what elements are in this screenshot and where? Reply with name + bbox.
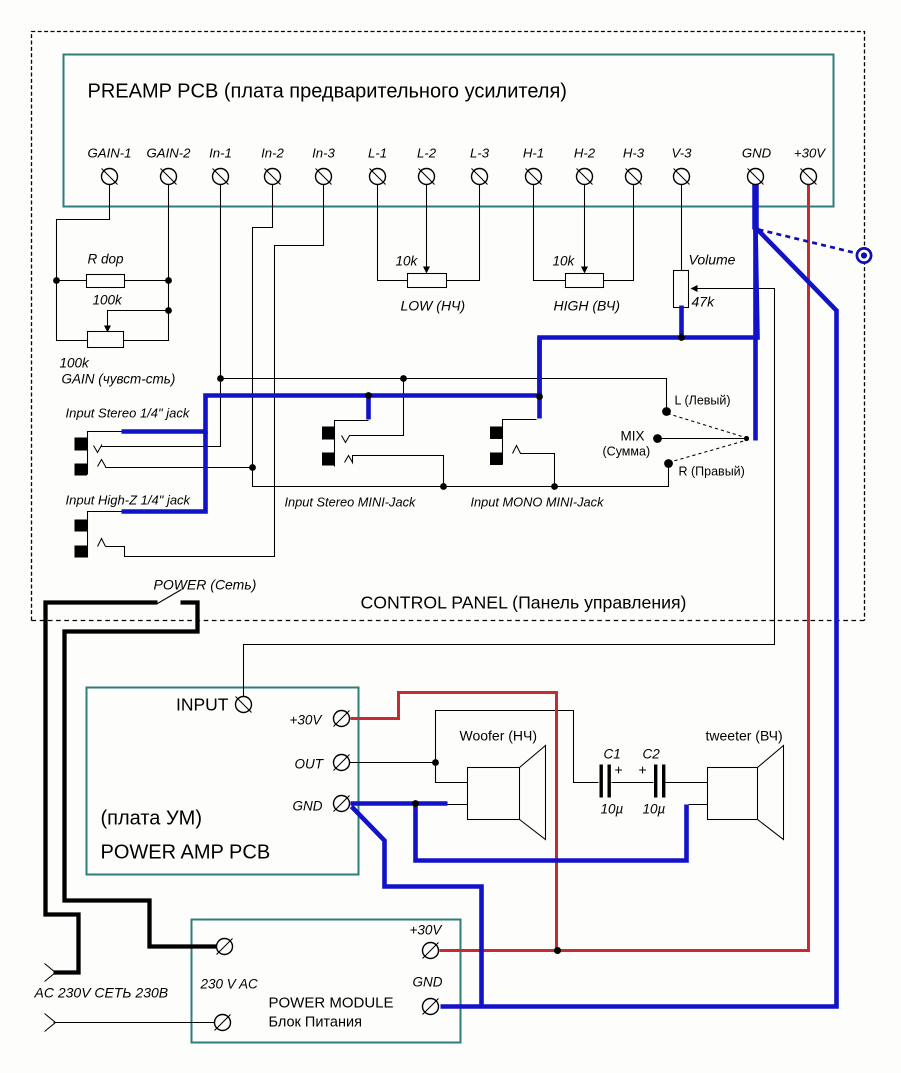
node MIX — [653, 434, 662, 443]
blue vertical to selector — [753, 228, 758, 441]
node OUT — [432, 759, 439, 766]
wire In-3 down to High-Z tip — [106, 185, 324, 557]
terminal In-3 — [316, 169, 332, 185]
wire Volume wiper to INPUT — [244, 289, 775, 697]
terminal L-1 — [370, 169, 386, 185]
svg-text:L-1: L-1 — [368, 146, 387, 161]
wire L-2 wiper — [426, 185, 428, 268]
node In-1 ring — [217, 375, 224, 382]
svg-text:H-3: H-3 — [623, 146, 645, 161]
svg-text:LOW (НЧ): LOW (НЧ) — [401, 298, 466, 314]
jack Input High-Z body — [88, 512, 122, 558]
node R — [664, 459, 673, 468]
potentiometer HIGH 10k — [566, 274, 604, 288]
terminal amp GND — [334, 796, 350, 812]
terminal H-2 — [577, 169, 593, 185]
connector external circle — [857, 248, 871, 262]
arrowhead LOW wiper — [423, 267, 430, 274]
node mini stereo tip on bottom line — [440, 483, 447, 490]
node selector common — [744, 436, 749, 441]
wire OUT net — [350, 762, 436, 764]
jack Stereo MINI body — [335, 421, 369, 467]
capacitor C2 plates — [654, 765, 657, 798]
svg-text:tweeter (ВЧ): tweeter (ВЧ) — [706, 728, 783, 744]
svg-text:L (Левый): L (Левый) — [675, 394, 731, 408]
mains plug chevron 1 — [45, 964, 56, 982]
jack stereo contact squares — [75, 438, 88, 451]
wire In-2 down to stereo jack tip — [253, 185, 669, 487]
node red junction — [554, 947, 561, 954]
wire selector MIX common — [662, 438, 746, 440]
mono squares — [490, 427, 503, 440]
svg-text:L-2: L-2 — [417, 146, 437, 161]
jack Input Stereo 1/4 body — [88, 432, 122, 475]
dashed selector to R — [669, 441, 746, 463]
svg-text:+: + — [615, 762, 623, 778]
blue amp GND wire — [351, 801, 448, 806]
svg-text:R dop: R dop — [88, 252, 125, 267]
blue GND terminal stub — [752, 184, 759, 230]
dashed selector to L — [668, 414, 746, 438]
jack stereo tip contact — [98, 460, 106, 468]
blue amp GND to tweeter return — [416, 804, 687, 861]
wire OUT to woofer — [436, 763, 468, 783]
potentiometer GAIN 100k — [88, 332, 124, 348]
dashed blue wire to external — [759, 230, 854, 253]
node volume stub — [678, 334, 685, 341]
svg-text:GND: GND — [293, 799, 323, 814]
svg-text:GAIN-1: GAIN-1 — [88, 146, 132, 161]
red wire +30V amp — [351, 693, 557, 951]
terminal V-3 — [674, 169, 690, 185]
wire ring bus to L node — [221, 379, 667, 412]
svg-text:PREAMP PCB (плата предваритель: PREAMP PCB (плата предварительного усили… — [88, 81, 567, 103]
jack high-z squares — [75, 520, 88, 532]
terminal GND — [748, 169, 764, 185]
svg-text:Volume: Volume — [689, 252, 736, 268]
svg-text:GND: GND — [742, 146, 772, 161]
terminal GAIN-1 — [102, 169, 118, 185]
svg-text:In-2: In-2 — [261, 146, 284, 161]
node amp GND — [412, 800, 419, 807]
wire In-1 down to stereo jack ring — [102, 185, 221, 447]
svg-text:47k: 47k — [692, 294, 716, 310]
svg-text:POWER AMP PCB: POWER AMP PCB — [101, 842, 271, 864]
wire stereo jack tip — [106, 467, 253, 469]
svg-text:MIX: MIX — [621, 429, 645, 444]
svg-text:INPUT: INPUT — [176, 695, 229, 715]
blue High-Z stub — [122, 432, 206, 512]
svg-text:OUT: OUT — [295, 757, 325, 772]
wire C2 to tweeter — [666, 782, 708, 784]
node In-2 tip — [249, 464, 256, 471]
svg-text:Input High-Z 1/4" jack: Input High-Z 1/4" jack — [66, 493, 192, 508]
potentiometer Volume 47k — [674, 271, 689, 308]
arrowhead HIGH wiper — [581, 267, 588, 274]
wire C1-C2 — [612, 782, 654, 784]
terminal module AC2 — [215, 1015, 231, 1031]
woofer speaker — [468, 768, 520, 820]
arrowhead GAIN pot wiper — [104, 326, 111, 333]
potentiometer LOW 10k — [408, 274, 447, 288]
svg-text:L-3: L-3 — [470, 146, 490, 161]
wire OUT to crossover top — [436, 711, 599, 783]
mini stereo squares — [322, 427, 335, 440]
svg-text:230 V AC: 230 V AC — [200, 977, 259, 992]
wire GAIN-2 down — [124, 185, 169, 341]
mini stereo tip wire — [345, 456, 444, 487]
wire wiper GAIN pot — [108, 311, 169, 327]
svg-text:(плата УМ): (плата УМ) — [101, 808, 202, 830]
svg-text:10µ: 10µ — [601, 802, 624, 817]
svg-text:H-1: H-1 — [523, 146, 544, 161]
wire GAIN-1 down — [57, 185, 110, 341]
terminal H-1 — [526, 169, 542, 185]
power switch blade — [158, 590, 182, 604]
svg-text:100k: 100k — [93, 293, 124, 308]
svg-text:+30V: +30V — [794, 146, 826, 161]
node L — [662, 407, 671, 416]
mono tip wire — [513, 446, 555, 487]
wire L-1 down — [378, 185, 408, 281]
blue ground bus preamp — [122, 184, 758, 432]
terminal INPUT — [236, 697, 252, 713]
svg-text:POWER (Сеть): POWER (Сеть) — [154, 577, 257, 593]
red wire +30V rail bottom — [440, 185, 809, 951]
control panel bottom dashed edge — [32, 620, 865, 622]
terminal module AC1 — [217, 939, 233, 955]
tweeter speaker — [708, 768, 758, 820]
terminal amp +30V — [334, 711, 350, 727]
wire H-1 down — [534, 185, 566, 281]
svg-text:In-3: In-3 — [312, 146, 335, 161]
node R dop left — [53, 277, 60, 284]
wire H-2 wiper — [584, 185, 586, 268]
resistor R dop leads — [57, 280, 87, 282]
svg-text:Input MONO MINI-Jack: Input MONO MINI-Jack — [471, 495, 605, 510]
resistor R dop — [87, 275, 125, 288]
terminal In-1 — [213, 169, 229, 185]
mains wire plug2 — [54, 1022, 215, 1024]
terminal amp OUT — [334, 755, 350, 771]
svg-text:HIGH (ВЧ): HIGH (ВЧ) — [554, 298, 621, 314]
blue volume stub — [679, 306, 684, 338]
svg-text:GND: GND — [413, 975, 443, 990]
capacitor C1 plates — [600, 765, 603, 798]
svg-text:H-2: H-2 — [574, 146, 596, 161]
svg-text:+: + — [639, 762, 647, 778]
preamp PCB box — [64, 55, 834, 207]
svg-text:AC 230V СЕТЬ 230В: AC 230V СЕТЬ 230В — [34, 985, 169, 1001]
svg-text:Woofer (НЧ): Woofer (НЧ) — [460, 728, 538, 744]
mini stereo ring V wire — [342, 379, 404, 443]
svg-text:R (Правый): R (Правый) — [679, 465, 745, 479]
power switch wire A from plug — [46, 603, 158, 973]
woofer wire stub black — [445, 804, 468, 806]
terminal module +30V — [423, 943, 439, 959]
power switch wire B to module — [65, 603, 217, 947]
node mono tip on bottom line — [551, 483, 558, 490]
jack stereo ring contact V — [94, 446, 102, 453]
jack MONO MINI body — [503, 420, 537, 465]
node R dop right — [165, 277, 172, 284]
svg-text:Блок Питания: Блок Питания — [269, 1015, 362, 1031]
svg-text:V-3: V-3 — [671, 146, 692, 161]
node mini-jack ring — [400, 375, 407, 382]
svg-text:(Сумма): (Сумма) — [603, 445, 651, 459]
power module box — [192, 920, 461, 1043]
terminal module GND — [423, 999, 439, 1015]
svg-text:CONTROL PANEL (Панель управле: CONTROL PANEL (Панель управления) — [361, 593, 687, 613]
svg-text:C1: C1 — [604, 747, 621, 762]
terminal H-3 — [626, 169, 642, 185]
wire L-3 down — [447, 185, 480, 281]
svg-text:In-1: In-1 — [209, 146, 232, 161]
svg-text:10k: 10k — [553, 254, 576, 269]
terminal In-2 — [265, 169, 281, 185]
tweeter wire stub black — [689, 804, 708, 806]
arrowhead Volume wiper — [691, 285, 698, 292]
node mini stub — [365, 392, 372, 399]
terminal GAIN-2 — [161, 169, 177, 185]
terminal L-3 — [472, 169, 488, 185]
node mono stub — [536, 393, 543, 400]
blue mono stub — [537, 338, 542, 419]
svg-text:100k: 100k — [60, 356, 91, 371]
jack high-z tip contact — [98, 539, 106, 547]
blue mini stereo stub — [366, 396, 371, 420]
terminal +30V — [801, 169, 817, 185]
svg-text:+30V: +30V — [290, 713, 324, 728]
svg-text:GAIN-2: GAIN-2 — [147, 146, 192, 161]
power amp PCB box — [87, 688, 359, 875]
node GAIN wiper — [165, 307, 172, 314]
terminal L-2 — [419, 169, 435, 185]
svg-text:10k: 10k — [396, 254, 419, 269]
svg-text:Input Stereo 1/4" jack: Input Stereo 1/4" jack — [66, 406, 191, 421]
svg-text:+30V: +30V — [410, 923, 444, 938]
wire H-3 down — [604, 185, 634, 281]
svg-text:C2: C2 — [643, 747, 661, 762]
control panel dashed border — [32, 32, 865, 621]
blue amp GND diagonal down — [352, 807, 482, 1005]
svg-text:10µ: 10µ — [643, 802, 666, 817]
svg-text:Input Stereo MINI-Jack: Input Stereo MINI-Jack — [285, 495, 416, 510]
blue diagonal GND to right rail — [441, 228, 837, 1007]
wire V-3 down — [681, 185, 683, 271]
svg-text:GAIN (чувст-сть): GAIN (чувст-сть) — [62, 372, 176, 387]
svg-text:POWER MODULE: POWER MODULE — [269, 995, 394, 1012]
mains plug chevron 2 — [45, 1014, 56, 1032]
